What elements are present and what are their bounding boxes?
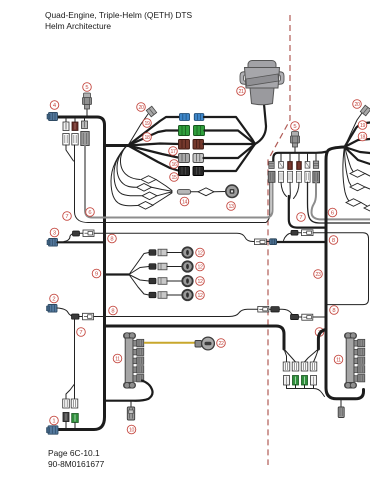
label 12 row1 [196,248,205,257]
connector 5 (helm1 CAN termination) [83,93,92,117]
inline connector helm2 (white box) on upper bus [302,230,314,236]
label 6 (helm2 right) [328,208,337,217]
wire: black right to node2 [204,144,256,171]
wire: helm2 trunk [326,147,364,399]
connector pair col2 upper (maroon) [72,122,78,131]
label 12 row4 [196,291,205,300]
wire: connector3 stub to trunk (thick) [58,241,105,243]
connector pair col2 lower (white) [72,134,78,146]
wire: upper bus thin run helm1->helm2->right [64,233,270,241]
svg-text:3: 3 [53,231,56,237]
junction box 11 (helm1 power post) [124,333,144,388]
label 5 (helm2) [291,122,300,131]
label 1 [50,416,59,425]
svg-text:8: 8 [111,309,114,315]
label 14 [180,197,189,206]
connector pair gray left [179,154,190,163]
wire: helm2 stems upper row [281,153,316,162]
label 5 [83,83,92,92]
svg-text:11: 11 [336,358,341,364]
wire: stubs from bottom connectors to trunk bottom [66,422,75,429]
wire: helm2 harness bus (thick, from trunk corner) [273,152,327,162]
wire: helm2 data stub thick to trunk [276,241,324,243]
label 6 [86,208,95,217]
svg-text:7: 7 [299,215,302,221]
label 2 [50,294,59,303]
inline connector (dark) on upper bus [73,231,80,236]
connector pair green right [194,126,205,136]
connector 2 (blue) [47,305,58,313]
connector 20 (helm3, angled) [360,105,370,116]
svg-text:14: 14 [182,200,187,206]
label 20 [137,103,146,112]
connector 22 (round power plug) [195,337,214,350]
label 8 (far right upper) [329,236,338,245]
label 22 [217,339,226,348]
svg-text:21: 21 [239,89,244,95]
connector 5 helm2 (CAN termination) [291,132,300,153]
connector pair col1 lower (white) [63,134,69,146]
inline connector 14 (weather cap) [177,189,190,194]
svg-text:7: 7 [65,214,68,220]
key row 3 [149,276,193,286]
svg-text:Page 6C-10.1: Page 6C-10.1 [48,448,100,458]
label 15 [170,173,179,182]
inline connector helm2 (white box) on lower bus [302,314,313,320]
svg-text:5: 5 [85,85,88,91]
connector pair black right [193,167,204,176]
station divider dashed line [268,15,290,465]
svg-text:90-8M0161677: 90-8M0161677 [48,459,105,469]
connector 13 (round accessory plug) [226,185,238,197]
label 18 [143,133,152,142]
svg-text:17: 17 [171,149,176,155]
wire: helm2 bottom pair fans [284,349,318,362]
svg-text:12: 12 [198,265,203,271]
label 12 row2 [196,262,205,271]
wire: green right to node2 [205,131,256,145]
twisted pair chain 1 [120,145,140,180]
svg-text:12: 12 [198,279,203,285]
connector pair gray right [193,154,204,163]
inline connector mid (white box) on lower bus [258,306,269,312]
svg-text:Helm Architecture: Helm Architecture [45,21,111,31]
wire: helm3 fan node wires to page edge [345,123,370,165]
wire: key fan rows [129,253,149,296]
inline connector helm2 (dark) on lower bus [291,314,299,319]
inline connector (dark) on lower bus [72,314,80,319]
wire: helm2 bottom connector stubs [287,385,325,397]
key row 2 [149,261,193,271]
svg-text:12: 12 [198,251,203,257]
junction box 11 (helm2 power post) [345,333,365,388]
svg-text:5: 5 [293,124,296,130]
wire 7: thin pair from top connectors down left side [66,145,270,223]
wire: junction box bottom loop to trunk [106,381,153,401]
wire: blue right to node2 [204,117,255,144]
svg-text:12: 12 [198,293,203,299]
wire: helm1 main trunk [58,117,105,430]
wire: fan node to gray pair [128,146,178,158]
connector pair green left [179,126,190,136]
connector 3 (blue) [47,239,58,247]
wire: 14 to diamond to 13 [191,191,198,193]
helm3 twisted pair chain C [343,146,349,201]
svg-text:9: 9 [95,272,98,278]
wire: gray right to node2 [204,144,256,158]
connector pair col3 lower (gray large) [81,132,89,146]
connector pair col3 upper (silver) [82,121,88,129]
svg-text:19: 19 [145,121,150,127]
label 17 [169,147,178,156]
wire: lower bus thin run helm1->helm2 [57,308,272,317]
wire: fan node to black pair [128,146,178,171]
svg-text:6: 6 [331,211,334,217]
wire: yellow power lead [144,342,195,344]
helm2 lower row connectors [268,171,319,183]
wire: helm2 right drop for bottom pairs [318,330,326,350]
inline connector (white box) on lower bus [83,313,94,320]
label 23 [314,270,323,279]
wire: fan node to brown pair [128,144,179,146]
key row 4 [149,290,193,300]
label 7 (helm1 bottom) [77,328,86,337]
label 19 [143,119,152,128]
wire: helm3 thin wire to connector 20 [345,113,363,147]
svg-text:22: 22 [219,341,224,347]
connector pair brown right [193,140,204,150]
svg-text:8: 8 [332,238,335,244]
label 8 (helm2 lower) [330,306,339,315]
key row 1: inline connectors and switch 12 [149,247,193,257]
connector (helm2 battery stub) [338,407,344,418]
wire: helm2 col7 gray drop to helm3 gray line [312,183,370,220]
label 21 [237,87,246,96]
wire: fan node to connector 20 [128,114,148,146]
connector helm2 data (blue) [270,239,277,245]
bottom pair left (white M) [63,399,70,408]
svg-text:19: 19 [360,123,365,129]
helm2 bottom connectors (white,green,green,white) [284,376,317,386]
twisted pair chain 4 [111,145,138,206]
wire: branch trunk to fan node [105,144,129,147]
inline connector mid (dark) on lower bus [271,307,280,312]
label 12 row3 [196,277,205,286]
label 18 (helm3) [358,132,367,141]
wire: stems below trunk for top pairs [66,118,85,122]
wire: helm2 col6 drop to helm3 accessory line [308,182,370,223]
svg-text:8: 8 [332,308,335,314]
connector 1 (blue) [47,426,59,434]
label 16 [170,160,179,169]
wire: thick link helm1 trunk to helm2 drop [105,326,285,349]
svg-text:23: 23 [316,272,321,278]
connector 4 (blue harness plug) [47,113,58,121]
wire: helm2 stub connector below loop [340,399,342,407]
wire: stub to connector 10 [130,401,132,408]
svg-text:13: 13 [229,204,234,210]
helm3 twisted pair chain B [345,146,352,186]
svg-text:Quad-Engine, Triple-Helm (QETH: Quad-Engine, Triple-Helm (QETH) DTS [45,10,192,20]
svg-text:2: 2 [52,297,55,303]
label 3 [50,228,59,237]
wire: node2 up to component 21 [255,104,266,144]
svg-text:18: 18 [145,135,150,141]
inline connector (white box) on upper bus [83,230,94,237]
wire: accessory feed down to bottom pairs [66,319,75,399]
label 20 (helm3) [353,100,362,109]
connector pair blue left [180,114,190,121]
label 8 (helm1 lower) [109,306,118,315]
wire: trunk branch to key fan node [105,273,130,275]
svg-text:7: 7 [79,330,82,336]
label 8 (helm1 upper) [108,234,117,243]
connector pair blue right [194,114,204,121]
connector pair brown left [179,140,190,150]
label 11 (helm1) [113,354,122,363]
svg-text:8: 8 [110,237,113,243]
wire: fan node to green pair [128,131,179,146]
svg-text:10: 10 [129,428,134,434]
svg-text:18: 18 [360,135,365,141]
label 4 [50,101,59,110]
label 7 [63,212,72,221]
twisted pair chain 2 [117,145,136,188]
inline connector helm2 (dark) on upper bus [291,230,298,235]
label 11 (helm2) [334,355,343,364]
helm2 upper row connectors [269,161,319,170]
connector pair black left [179,167,190,176]
bottom connector green (right) [72,414,79,423]
svg-text:16: 16 [172,162,177,168]
wire: fan node to blue pair [128,117,179,146]
svg-text:20: 20 [355,102,360,108]
svg-text:20: 20 [139,105,144,111]
label 10 [127,425,136,434]
inline connector pair mid (white box) on upper bus [255,239,267,245]
svg-text:6: 6 [88,210,91,216]
wire: brown right to node2 [204,143,256,145]
bottom connector dark (left) [63,413,69,422]
connector 20 (small gray, angled) [146,106,156,117]
component 21 (control head assembly) [240,61,284,105]
label 9 [92,269,101,278]
bottom pair right (white M) [71,399,78,408]
connector pair col1 upper (white) [63,122,69,131]
label 19 (helm3) [358,121,367,130]
svg-text:1: 1 [52,419,55,425]
label 13 [227,202,236,211]
svg-text:15: 15 [172,175,177,181]
wire 6: gray accessory wire down left side to helm2 [85,146,273,218]
connector 10 [127,407,134,420]
helm3 twisted pair chain A [345,146,354,172]
twisted pair chain 3 [114,145,142,196]
wire: helm2 col3 drop into link bundle [281,182,299,200]
label 7 (helm2 right) [297,213,306,222]
svg-text:11: 11 [115,357,120,363]
helm2 bottom pairs (white M connectors) [283,362,317,371]
label 7 (helm2 bottom) [315,328,324,337]
